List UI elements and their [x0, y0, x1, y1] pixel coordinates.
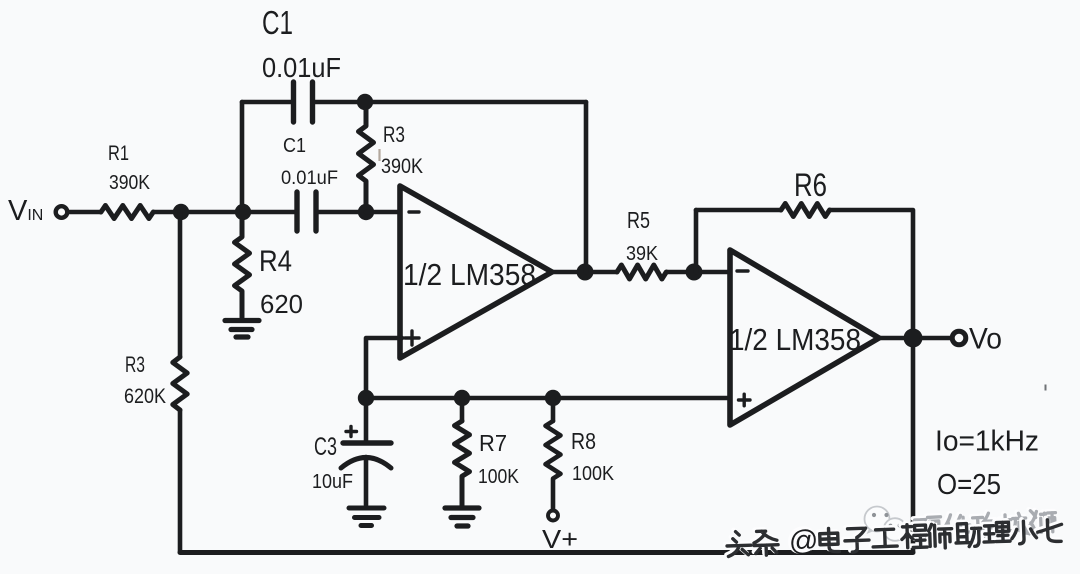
wire R3 620K to bottom rail: [178, 411, 183, 552]
svg-text:39K: 39K: [626, 243, 659, 265]
resistor R7: [455, 421, 470, 506]
node J (output junction): [904, 329, 923, 348]
svg-text:@: @: [788, 525, 819, 558]
resistor R3 620K (left): [173, 357, 187, 410]
watermark logo bubbles: [865, 507, 907, 541]
ground below R7: [445, 508, 479, 526]
resistor R6: [781, 204, 830, 217]
svg-text:R3: R3: [383, 122, 405, 147]
wire node J down right rail: [911, 346, 916, 552]
logo big bubble eyes: [872, 513, 876, 517]
wire node J to Vo terminal: [922, 336, 951, 341]
wire node B up to top rail: [240, 102, 245, 212]
ground below C3: [349, 508, 384, 526]
watermark light text 硬件攻城狮: [913, 508, 1057, 543]
svg-text:C1: C1: [262, 4, 293, 41]
svg-text:V+: V+: [542, 524, 578, 554]
wire R5 to node F: [667, 270, 730, 275]
C3 plus sign: [346, 427, 357, 437]
svg-text:Vo: Vo: [969, 323, 1002, 356]
logo small bubble eyes: [889, 524, 893, 528]
svg-text:Io=1kHz: Io=1kHz: [935, 426, 1039, 458]
svg-text:390K: 390K: [381, 154, 424, 178]
svg-text:R3: R3: [125, 352, 145, 377]
wire C1 mid to node C: [318, 210, 366, 215]
capacitor C3 lower lead: [364, 457, 369, 505]
R6 rail right segment and drop to output node: [831, 210, 913, 330]
U1 minus sign: [409, 210, 419, 213]
resistor R7 lead: [460, 398, 465, 421]
wire U1 noninverting input: [366, 338, 402, 398]
svg-text:R7: R7: [479, 430, 507, 456]
bottom rail wire: [180, 550, 913, 555]
capacitor C3 curved plate: [341, 458, 391, 469]
node E (U1 output junction): [577, 264, 594, 281]
resistor R5: [617, 265, 666, 279]
logo big bubble: [865, 507, 890, 532]
logo big bubble tail: [867, 529, 873, 534]
node D (top rail / R3 390K): [357, 94, 373, 110]
capacitor C3 straight plate: [343, 440, 391, 445]
capacitor C1 mid plates: [297, 192, 316, 231]
svg-text:R1: R1: [108, 141, 129, 165]
op-amp U2 triangle: [730, 250, 879, 425]
U1 plus sign: [405, 331, 419, 345]
node H (R7 junction): [454, 390, 470, 406]
svg-text:R4: R4: [259, 245, 292, 278]
svg-text:620K: 620K: [124, 384, 167, 408]
wire U2 output to node J: [879, 336, 903, 341]
wire node F up to R6 rail: [694, 210, 699, 272]
U2 plus sign: [739, 394, 751, 406]
svg-text:0.01uF: 0.01uF: [281, 168, 338, 189]
svg-text:R6: R6: [794, 167, 827, 203]
svg-text:O=25: O=25: [937, 469, 1001, 501]
capacitor C3 lead from node G: [364, 398, 369, 441]
svg-text:10uF: 10uF: [312, 471, 353, 493]
ground below R4: [225, 321, 259, 338]
U1 input polarity marks: [346, 212, 750, 437]
svg-text:C3: C3: [314, 433, 337, 461]
svg-text:390K: 390K: [109, 172, 151, 194]
input terminal VIN: [56, 206, 68, 218]
resistor R4: [235, 212, 250, 317]
svg-text:R8: R8: [571, 428, 596, 454]
svg-text:R5: R5: [627, 207, 650, 233]
node A (junction R1 / R3 620K): [173, 204, 189, 220]
resistor R8: [546, 421, 561, 509]
watermark dark text 头条 @电子工程师助理小七: [725, 515, 1063, 561]
node F (U2 inverting input junction): [686, 264, 703, 281]
node C (inverting input node): [358, 204, 374, 220]
svg-text:100K: 100K: [572, 462, 614, 485]
R6 rail left segment: [696, 208, 781, 213]
feedback wire node E up to top rail: [584, 102, 589, 272]
wire node B to C1 mid: [243, 210, 295, 215]
top rail wire right segment: [315, 100, 586, 105]
svg-text:0.01uF: 0.01uF: [262, 52, 341, 83]
capacitor C1 top plates: [294, 82, 313, 122]
top rail wire left segment: [242, 100, 291, 105]
scan artifact right margin: [1045, 385, 1047, 391]
scan artifact near R3 390K label: [378, 149, 380, 161]
U2 minus sign: [737, 269, 748, 272]
svg-text:1/2 LM358: 1/2 LM358: [729, 322, 861, 357]
resistor R3 390K (vertical): [359, 102, 374, 212]
wire node C to op-amp U1 inverting input: [366, 210, 400, 215]
svg-text:100K: 100K: [478, 465, 519, 488]
op-amp U1 triangle: [400, 186, 552, 358]
noninverting row wire (U1+ rail to U2+): [366, 396, 730, 401]
node I (R8 junction): [545, 390, 561, 406]
wire R1 to node A: [155, 210, 243, 215]
resistor R8 lead: [551, 398, 556, 421]
svg-text:620: 620: [260, 291, 303, 319]
svg-text:C1: C1: [283, 134, 306, 157]
wire VIN to R1: [68, 210, 100, 215]
svg-text:1/2 LM358: 1/2 LM358: [403, 257, 536, 292]
logo small bubble: [884, 518, 907, 541]
V+ terminal circle: [548, 511, 558, 521]
Vo terminal circle: [952, 331, 966, 345]
wire node A down to R3 620K: [178, 212, 183, 356]
resistor R1: [101, 206, 153, 219]
node G (C3 junction): [358, 390, 374, 406]
node B (junction to C1 caps / R4): [235, 204, 251, 220]
wire U1 output to node E: [552, 270, 617, 275]
